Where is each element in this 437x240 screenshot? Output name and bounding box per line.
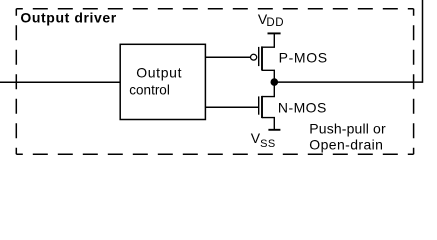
- svg-text:Open-drain: Open-drain: [309, 137, 383, 153]
- transistor Q1 P-MOS: source lead to VDD: [262, 33, 274, 47]
- wire: control output to N-MOS gate: [205, 106, 258, 108]
- transistor Q1 P-MOS: drain lead to output node: [262, 70, 274, 82]
- power symbol VSS supply bar: [268, 129, 280, 131]
- wire: input from left edge into output control: [0, 81, 121, 83]
- transistor Q2 N-MOS: gate bar: [258, 96, 260, 114]
- svg-text:control: control: [129, 82, 170, 97]
- svg-text:Output: Output: [136, 65, 182, 81]
- transistor Q1 P-MOS: gate bubble: [251, 54, 257, 60]
- wire: output node to right edge then up to pin: [274, 0, 422, 82]
- svg-text:SS: SS: [260, 138, 275, 150]
- output control block U1: [120, 44, 205, 119]
- dashed enclosure box: right edge: [413, 9, 415, 155]
- dashed enclosure box: bottom edge: [16, 153, 413, 155]
- svg-text:Push-pull or: Push-pull or: [309, 121, 386, 137]
- svg-text:N-MOS: N-MOS: [278, 99, 327, 115]
- dashed enclosure box: top edge: [16, 8, 413, 10]
- wire: control output to P-MOS gate: [205, 56, 250, 58]
- dashed enclosure box: left edge: [15, 9, 17, 155]
- svg-text:DD: DD: [266, 17, 284, 29]
- svg-text:P-MOS: P-MOS: [279, 50, 328, 66]
- transistor Q2 N-MOS: channel bar: [261, 96, 263, 118]
- transistor Q2 N-MOS: source lead to VSS: [262, 118, 274, 130]
- transistor Q2 N-MOS: drain lead to output node: [262, 82, 274, 97]
- svg-text:Output driver: Output driver: [20, 9, 116, 25]
- transistor Q1 P-MOS: gate bar: [258, 47, 260, 66]
- node: output junction dot: [271, 78, 279, 86]
- power symbol VDD supply bar: [268, 32, 281, 34]
- transistor Q1 P-MOS: channel bar: [261, 46, 263, 70]
